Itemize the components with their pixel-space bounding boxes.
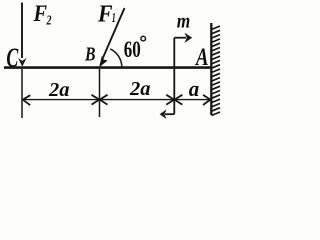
svg-text:60: 60 bbox=[124, 37, 141, 62]
svg-text:C: C bbox=[6, 43, 18, 73]
svg-text:2: 2 bbox=[46, 14, 52, 29]
svg-text:a: a bbox=[189, 76, 200, 101]
svg-text:2a: 2a bbox=[129, 79, 151, 100]
svg-text:B: B bbox=[84, 44, 95, 66]
svg-text:F: F bbox=[97, 1, 112, 28]
svg-text:2a: 2a bbox=[48, 80, 70, 101]
svg-text:F: F bbox=[33, 1, 47, 26]
svg-text:A: A bbox=[195, 44, 209, 71]
svg-text:1: 1 bbox=[112, 11, 116, 26]
svg-text:m: m bbox=[177, 8, 191, 32]
